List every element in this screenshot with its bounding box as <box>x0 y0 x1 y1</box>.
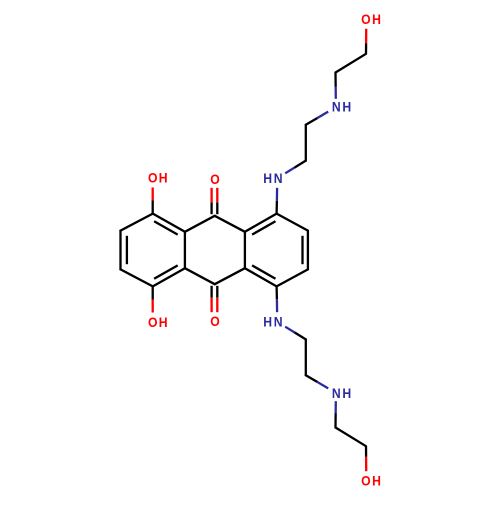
bond CH2-OH red part <box>365 29 367 44</box>
bond C6=C7 inner <box>126 236 128 264</box>
bond C9=O left line black <box>210 202 212 214</box>
bond C5-OH upper black part <box>152 201 154 214</box>
bond N2-CH2 blue part <box>334 86 336 99</box>
bond C10=O right line red <box>216 298 218 313</box>
svg-text:H: H <box>342 385 351 401</box>
bond C1-N1 blue part <box>276 188 279 201</box>
label OH phenol top <box>148 170 157 186</box>
bond C4a=C4 outer <box>245 268 277 286</box>
svg-text:H: H <box>342 99 351 115</box>
bond C9a=C1 inner <box>252 221 275 234</box>
bond CH2-CH2 top chain vertical <box>305 125 307 161</box>
bond C9=O right line black <box>216 202 218 214</box>
bond C4-C3 <box>277 269 308 286</box>
bond CH2-N5 blue part <box>317 382 328 389</box>
bond C4-N4 black part <box>275 286 278 299</box>
label O ketone bottom <box>210 313 219 329</box>
bond C8=C8a inner <box>154 265 178 278</box>
label O ketone top <box>210 171 219 187</box>
label NH top chain <box>332 99 341 115</box>
svg-text:O: O <box>210 313 219 329</box>
svg-text:H: H <box>159 170 168 186</box>
bond CH2-CH2 top chain slant <box>336 54 367 73</box>
label NH bottom chain <box>332 385 341 401</box>
bond CH2-N2 blue part <box>317 112 328 119</box>
bond C2=C3 inner <box>301 236 303 264</box>
bond C5-OH upper red part <box>152 188 154 201</box>
bond CH2-CH2 bottom chain vertical <box>305 339 307 375</box>
bond C8=C8a outer <box>153 268 185 286</box>
bond N4-CH2 blue part <box>285 327 295 333</box>
bond CH2-OH bottom black part <box>365 446 367 456</box>
bond N5-CH2 blue part <box>334 401 336 414</box>
bond C4a=C4 inner <box>252 265 275 278</box>
svg-text:O: O <box>210 171 219 187</box>
label OH top chain <box>361 11 370 27</box>
svg-text:O: O <box>148 314 157 330</box>
bond C10-C4a <box>215 268 245 284</box>
bond C6-C5 <box>121 214 153 231</box>
bond C10a-C9 <box>185 216 215 232</box>
bond N4-CH2 black part <box>296 333 306 339</box>
svg-text:N: N <box>332 385 341 401</box>
svg-text:H: H <box>263 314 272 330</box>
label OH bottom chain <box>361 473 370 489</box>
bond C5=C10a inner <box>154 221 178 234</box>
label OH phenol bottom <box>148 314 157 330</box>
svg-text:H: H <box>263 170 272 186</box>
bond N1-CH2 black part <box>296 161 306 167</box>
svg-text:N: N <box>274 314 283 330</box>
bond C1-C2 <box>277 214 308 231</box>
bond C8-OH lower red part <box>152 300 154 313</box>
bond CH2-CH2 bottom chain slant <box>336 428 367 447</box>
bond C9a-C4a fused edge right <box>244 232 246 268</box>
bond CH2-OH bottom red part <box>365 457 367 472</box>
bond C10=O left line red <box>210 298 212 313</box>
bond C10a-C8a fused edge left <box>184 232 186 268</box>
bond N2-CH2 black part <box>334 73 336 86</box>
bond C9=O left line red <box>210 188 212 203</box>
bond C9-C9a <box>215 216 245 232</box>
bond CH2-N2 black part <box>306 118 317 125</box>
svg-text:N: N <box>332 99 341 115</box>
bond CH2-OH black part <box>365 44 367 54</box>
bond C6=C7 outer <box>119 231 121 270</box>
svg-text:O: O <box>148 170 157 186</box>
svg-text:O: O <box>361 473 370 489</box>
svg-text:H: H <box>159 314 168 330</box>
bond C8-OH lower black part <box>152 286 154 299</box>
svg-text:H: H <box>372 11 381 27</box>
label HN top <box>263 170 272 186</box>
bond C2=C3 outer <box>307 231 309 270</box>
bond C9=O right line red <box>216 188 218 203</box>
bond C1-N1 black part <box>275 201 278 214</box>
bond C5=C10a outer <box>153 214 185 232</box>
label HN bottom <box>263 314 272 330</box>
bond C9a=C1 outer <box>245 214 277 232</box>
bond C4-N4 blue part <box>276 299 279 312</box>
svg-text:O: O <box>361 11 370 27</box>
bond CH2-N5 black part <box>306 375 317 382</box>
svg-text:N: N <box>274 170 283 186</box>
bond C10=O right line black <box>216 286 218 298</box>
bond N5-CH2 black part <box>334 414 336 427</box>
bond C7-C8 <box>121 269 153 286</box>
svg-text:H: H <box>372 473 381 489</box>
bond N1-CH2 blue part <box>285 167 295 173</box>
bond C8a-C10 <box>185 268 215 284</box>
bond C10=O left line black <box>210 286 212 298</box>
